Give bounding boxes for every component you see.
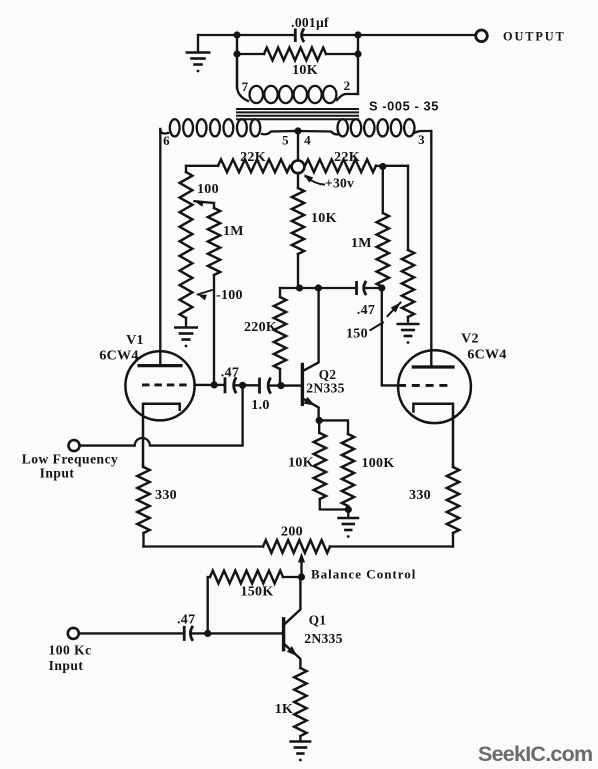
resistor 100 potentiometer bbox=[180, 172, 193, 318]
svg-text:100 Kc: 100 Kc bbox=[48, 643, 91, 658]
pot 100 wiper tap arrow bbox=[195, 201, 205, 207]
junction dot B1 bbox=[379, 163, 386, 170]
wire cap .47 to dot bbox=[234, 384, 259, 386]
svg-text:V1: V1 bbox=[126, 333, 144, 348]
resistor 150 arrow bbox=[391, 303, 401, 313]
junction dot A3 bbox=[354, 31, 361, 38]
resistor 100K bbox=[319, 420, 348, 434]
tube V2 plate lead bbox=[430, 131, 432, 366]
svg-text:22K: 22K bbox=[240, 150, 266, 165]
svg-text:S -005 - 35: S -005 - 35 bbox=[369, 99, 439, 114]
wire 1M left down to grid junction bbox=[213, 275, 215, 381]
svg-text:4: 4 bbox=[304, 133, 311, 148]
output terminal bbox=[476, 30, 488, 42]
svg-text:.47: .47 bbox=[357, 303, 375, 318]
svg-text:150: 150 bbox=[346, 327, 368, 342]
svg-text:150K: 150K bbox=[240, 585, 273, 600]
wire 220K hanger bbox=[279, 288, 281, 297]
node +30v circle bbox=[292, 160, 305, 173]
svg-text:OUTPUT: OUTPUT bbox=[503, 30, 566, 44]
capacitor .47 V1 grid bbox=[225, 377, 236, 393]
junction dot A2 bbox=[233, 50, 240, 57]
wire 150K right lead bbox=[283, 576, 301, 578]
node +30v annotation bbox=[304, 174, 314, 182]
transistor Q1 base bar bbox=[282, 619, 285, 650]
wire top rail left bbox=[198, 34, 295, 36]
resistor 22K left bbox=[218, 159, 290, 172]
resistor 1M right bbox=[377, 213, 389, 287]
wire 22K junction down bbox=[382, 167, 384, 214]
svg-text:10K: 10K bbox=[292, 63, 318, 78]
transformer T1 core bbox=[237, 109, 358, 119]
svg-text:V2: V2 bbox=[461, 332, 479, 347]
wire 10K row right bbox=[326, 53, 358, 55]
svg-text:.47: .47 bbox=[221, 366, 239, 381]
junction dot D2 bbox=[239, 382, 246, 389]
tube V2 cathode bbox=[413, 404, 453, 465]
junction dot C1 bbox=[296, 284, 303, 291]
junction dot D3 bbox=[277, 382, 284, 389]
tube V1 grid bbox=[142, 383, 188, 386]
resistor 150K bbox=[210, 571, 283, 584]
ground under 100 pot bbox=[185, 318, 187, 327]
wire 22K right to corner bbox=[376, 165, 408, 167]
ground top-left bbox=[197, 35, 199, 51]
svg-text:100: 100 bbox=[197, 182, 219, 197]
ground under 10K/100K bbox=[347, 510, 349, 517]
junction dot D1 bbox=[211, 381, 218, 388]
wire center tap down bbox=[297, 131, 299, 161]
svg-text:330: 330 bbox=[409, 488, 431, 503]
wire bottom bus left bbox=[144, 545, 264, 547]
svg-text:SeekIC.com: SeekIC.com bbox=[478, 742, 592, 766]
capacitor .47 mid bbox=[357, 281, 367, 295]
wire junction left vertical bbox=[236, 35, 238, 88]
junction dot A4 bbox=[354, 50, 361, 57]
svg-text:+30v: +30v bbox=[325, 176, 354, 191]
wire top rail right bbox=[302, 34, 475, 36]
svg-text:10K: 10K bbox=[311, 211, 337, 226]
svg-text:22K: 22K bbox=[334, 150, 360, 165]
wire bottom bus right bbox=[330, 545, 453, 547]
transistor Q2 base bar bbox=[301, 365, 304, 405]
svg-text:6CW4: 6CW4 bbox=[467, 348, 506, 363]
svg-text:10K: 10K bbox=[288, 456, 314, 471]
resistor 220K bbox=[274, 297, 286, 369]
capacitor .47 input bbox=[184, 626, 193, 641]
tube V1 envelope bbox=[125, 351, 194, 420]
resistor 330 left bbox=[142, 465, 144, 467]
wire 10K middle down bbox=[280, 254, 355, 288]
wire low freq input with hop bbox=[80, 385, 243, 445]
svg-text:1K: 1K bbox=[275, 702, 294, 717]
junction dot F1 bbox=[298, 573, 305, 580]
svg-text:7: 7 bbox=[242, 79, 249, 94]
ground under 1K bbox=[299, 736, 301, 740]
svg-text:Low Frequency: Low Frequency bbox=[22, 452, 119, 467]
svg-text:2N335: 2N335 bbox=[304, 631, 343, 646]
resistor 150 adj bbox=[402, 250, 414, 317]
transistor Q2 emitter bbox=[302, 398, 318, 420]
transistor Q2 collector bbox=[302, 288, 318, 371]
svg-text:1M: 1M bbox=[223, 224, 244, 239]
svg-text:330: 330 bbox=[155, 488, 177, 503]
wire input to cap bbox=[79, 632, 184, 634]
wire 1.0 to Q2 base bbox=[269, 384, 302, 386]
wire 22K left lead bbox=[186, 165, 218, 167]
junction dot E2 bbox=[345, 506, 352, 513]
resistor 1K bbox=[294, 668, 306, 736]
junction dot A1 bbox=[233, 31, 240, 38]
svg-text:Input: Input bbox=[49, 658, 84, 673]
transformer T1 secondary left winding bbox=[160, 129, 168, 134]
junction dot C3 bbox=[378, 284, 385, 291]
wire cap to base bbox=[192, 632, 283, 634]
wire 22K left corner down bbox=[185, 166, 187, 172]
transistor Q1 emitter bbox=[284, 644, 301, 669]
wire corner to 150 bbox=[407, 166, 409, 250]
wire node to 10K bbox=[297, 173, 299, 188]
junction dot E1 bbox=[316, 417, 323, 424]
resistor 10K middle bbox=[292, 188, 304, 254]
svg-text:6CW4: 6CW4 bbox=[99, 349, 138, 364]
tube V2 grid bbox=[398, 384, 450, 387]
svg-text:1M: 1M bbox=[351, 236, 372, 251]
pot 200 wiper arrow bbox=[300, 557, 302, 577]
transformer T1 center tap dot bbox=[294, 127, 301, 134]
svg-text:220K: 220K bbox=[244, 320, 277, 335]
svg-text:.001µf: .001µf bbox=[291, 15, 329, 30]
junction dot G1 bbox=[204, 630, 211, 637]
svg-text:3: 3 bbox=[418, 132, 425, 147]
resistor 22K right bbox=[305, 159, 376, 172]
pot 100 lower tap arrow -100 bbox=[198, 295, 208, 301]
capacitor C .001uf bbox=[295, 29, 304, 43]
resistor 330 right bbox=[452, 465, 454, 467]
resistor 10K emitter bbox=[318, 420, 320, 433]
svg-text:-100: -100 bbox=[216, 288, 243, 303]
wire 150K left lead bbox=[208, 577, 210, 633]
wire V2 grid lead bbox=[382, 288, 398, 385]
junction dot C2 bbox=[315, 284, 322, 291]
svg-text:Input: Input bbox=[40, 466, 75, 481]
svg-text:2: 2 bbox=[344, 78, 351, 93]
svg-text:.47: .47 bbox=[177, 613, 195, 628]
resistor 1M left bbox=[213, 203, 215, 208]
svg-text:200: 200 bbox=[281, 525, 303, 540]
svg-text:Q1: Q1 bbox=[309, 613, 326, 628]
transistor Q1 collector bbox=[284, 577, 301, 625]
svg-text:100K: 100K bbox=[361, 456, 394, 471]
ground under 150 bbox=[407, 317, 409, 323]
tube V1 cathode bbox=[143, 404, 180, 465]
low frequency input terminal bbox=[69, 440, 80, 451]
svg-text:2N335: 2N335 bbox=[306, 381, 345, 396]
capacitor 1.0 bbox=[260, 378, 271, 394]
transformer T1 secondary right winding bbox=[298, 131, 339, 134]
tube V2 envelope bbox=[398, 350, 471, 423]
wire 10K row left bbox=[237, 53, 264, 55]
tube V1 plate bbox=[159, 129, 161, 364]
resistor 10K feedback bbox=[264, 48, 326, 61]
svg-text:5: 5 bbox=[282, 133, 289, 148]
svg-text:1.0: 1.0 bbox=[251, 398, 269, 413]
wire junction right vertical bbox=[357, 35, 359, 54]
input terminal 100Kc bbox=[68, 628, 79, 639]
svg-text:6: 6 bbox=[163, 133, 170, 148]
svg-text:Balance Control: Balance Control bbox=[311, 567, 416, 582]
transformer T1 primary lead left bbox=[237, 54, 358, 101]
potentiometer 200 balance bbox=[263, 540, 330, 553]
transformer T1 primary winding bbox=[250, 86, 263, 103]
wire 220K bottom bbox=[279, 369, 281, 386]
wire cap to 1M junction bbox=[364, 287, 382, 289]
